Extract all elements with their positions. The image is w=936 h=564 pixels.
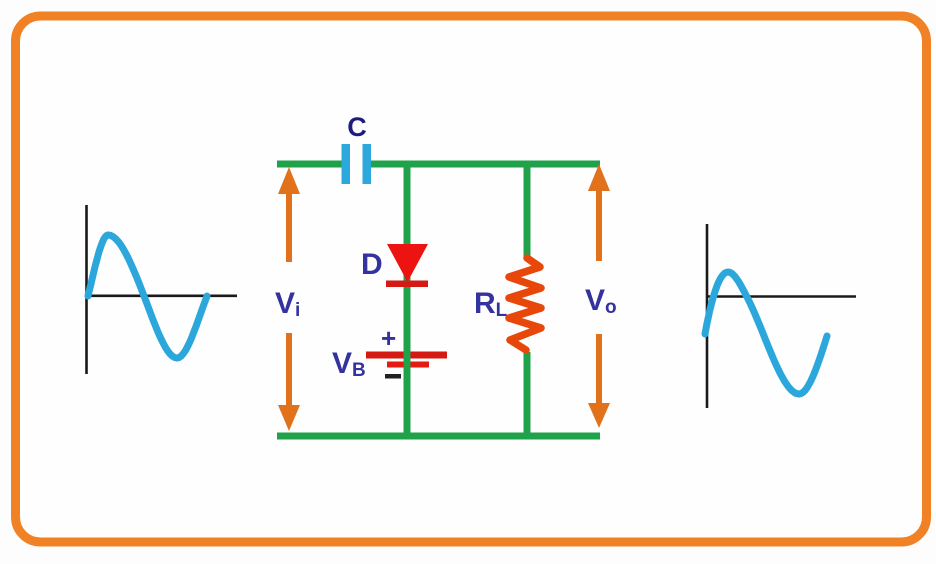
svg-text:C: C: [347, 112, 367, 142]
capacitor C: [342, 112, 372, 184]
node Vo: [585, 164, 617, 428]
resistor RL: [474, 258, 541, 350]
battery VB labels: [332, 323, 401, 381]
svg-text:+: +: [381, 323, 396, 353]
wire top rail left of capacitor C: [277, 161, 344, 168]
wire top rail right of capacitor C: [369, 161, 600, 168]
battery VB plates: [366, 352, 447, 368]
node Vi: [275, 167, 300, 431]
input waveform sine: [88, 235, 207, 358]
output waveform sine: [705, 272, 827, 394]
wire diode-battery branch: [404, 161, 411, 436]
input waveform axes: [87, 205, 238, 374]
diode D: [361, 244, 428, 287]
svg-text:D: D: [361, 248, 383, 281]
wire resistor branch lower: [524, 352, 531, 436]
wire resistor branch upper: [524, 161, 531, 258]
wire bottom rail: [277, 433, 600, 440]
output waveform axes: [707, 224, 856, 408]
